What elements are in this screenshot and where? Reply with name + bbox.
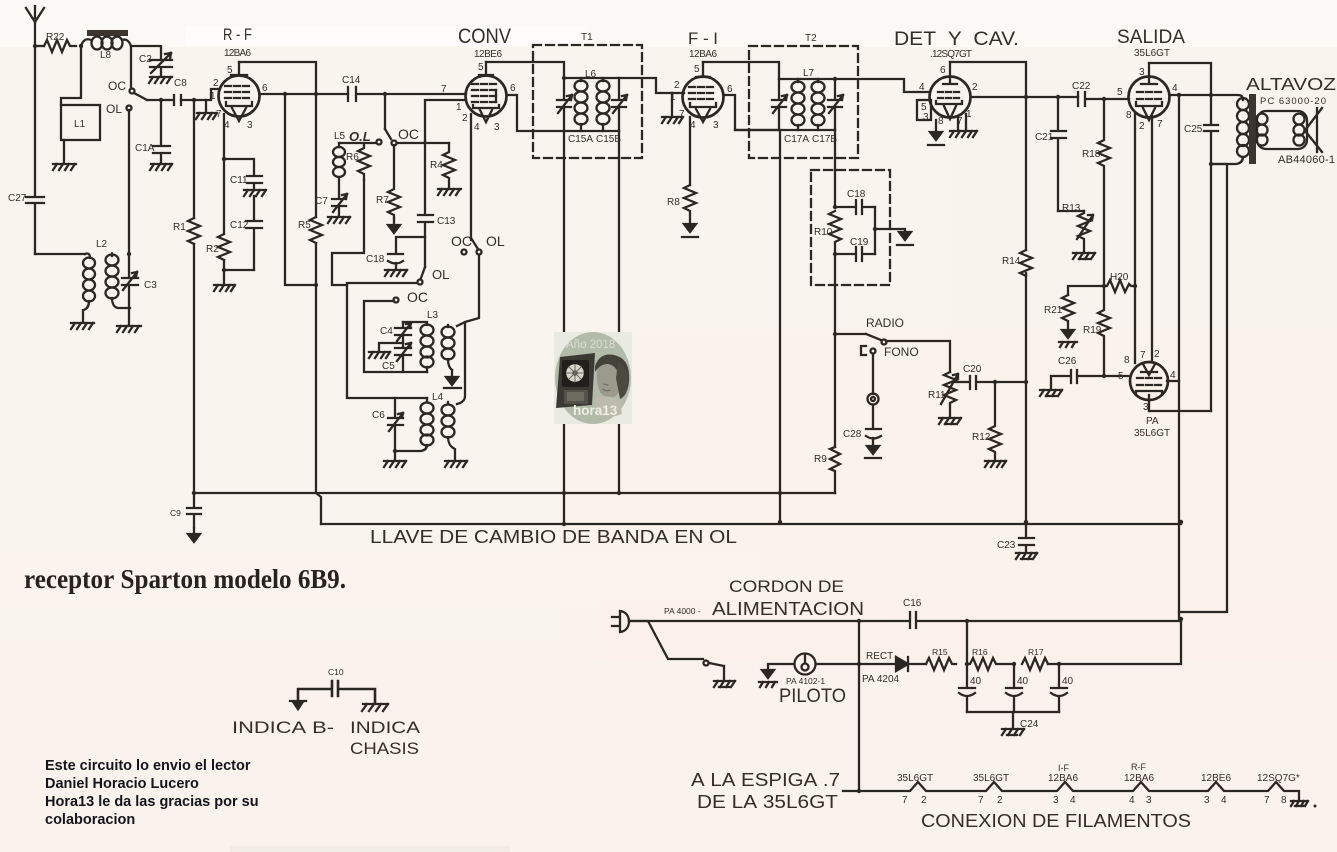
- svg-text:LLAVE DE CAMBIO DE BANDA EN OL: LLAVE DE CAMBIO DE BANDA EN OL: [370, 527, 737, 547]
- ground chassis under C26: [1040, 390, 1062, 396]
- resistor R12: [972, 382, 1001, 460]
- svg-text:R13: R13: [1062, 203, 1081, 214]
- wire C18/C19 right link: [874, 207, 876, 254]
- power plug: [612, 611, 629, 632]
- svg-text:PA: PA: [1146, 416, 1159, 427]
- svg-text:FONO: FONO: [884, 345, 919, 359]
- credit text block: [45, 758, 259, 828]
- svg-text:OC: OC: [108, 79, 126, 93]
- svg-text:C21: C21: [1035, 132, 1054, 143]
- svg-text:H20: H20: [1110, 272, 1129, 283]
- wire jack to C28: [872, 405, 874, 428]
- bus B- rail 1: [194, 492, 835, 494]
- capacitor C18 (avc): [835, 170, 875, 214]
- resistor R5: [298, 217, 322, 243]
- wire fono drop: [872, 354, 874, 394]
- svg-text:PA 4204: PA 4204: [862, 674, 900, 685]
- node R1 junction: [192, 98, 196, 102]
- inductor L3: [403, 310, 455, 372]
- svg-text:6: 6: [940, 65, 946, 76]
- wire DET pin2 out: [971, 96, 1078, 98]
- svg-text:CONV: CONV: [458, 25, 511, 48]
- capacitor C6 (variable): [372, 398, 403, 451]
- wire switch common to C8: [147, 99, 173, 101]
- svg-text:receptor Sparton modelo 6B9.: receptor Sparton modelo 6B9.: [24, 564, 346, 594]
- svg-text:4: 4: [1170, 370, 1176, 381]
- svg-text:2: 2: [674, 80, 680, 91]
- svg-text:R12: R12: [972, 432, 991, 443]
- ground chassis heater end: [1291, 801, 1317, 808]
- svg-text:R22: R22: [46, 32, 65, 43]
- resistor R8: [667, 185, 696, 224]
- ground chassis DET heater: [950, 131, 977, 137]
- svg-text:PILOTO: PILOTO: [779, 686, 846, 707]
- capacitor C7 (variable): [315, 194, 347, 216]
- capacitor C20: [963, 364, 1026, 389]
- AVC filter box: [811, 170, 890, 285]
- svg-text:2: 2: [1139, 121, 1145, 132]
- wire SALIDA cathode drop: [1134, 114, 1136, 363]
- svg-text:7: 7: [1264, 795, 1270, 806]
- svg-text:C1A: C1A: [135, 143, 155, 154]
- svg-text:C23: C23: [997, 540, 1016, 551]
- wire L8 junction down to OC contact: [130, 46, 132, 88]
- svg-text:C13: C13: [437, 216, 456, 227]
- svg-text:40: 40: [1062, 676, 1074, 687]
- svg-text:5: 5: [478, 62, 484, 73]
- svg-text:2: 2: [462, 113, 468, 124]
- node L2/C3 top: [127, 252, 131, 256]
- wire R14 line: [1025, 97, 1027, 522]
- svg-text:3: 3: [1053, 795, 1059, 806]
- svg-text:7: 7: [1140, 350, 1146, 361]
- rectifier diode PA4204: [859, 651, 926, 685]
- svg-text:4: 4: [919, 82, 925, 93]
- potentiometer R11: [928, 372, 958, 417]
- svg-text:F - I: F - I: [688, 29, 718, 48]
- wire PA plate to OT return: [1149, 410, 1211, 412]
- svg-text:3: 3: [1139, 67, 1145, 78]
- svg-text:CONEXION DE FILAMENTOS: CONEXION DE FILAMENTOS: [921, 811, 1191, 831]
- wire heater stubs: [958, 114, 966, 130]
- node L8 left junction: [79, 44, 83, 48]
- svg-text:T1: T1: [581, 32, 593, 43]
- svg-text:C8: C8: [174, 78, 187, 89]
- svg-text:C18: C18: [847, 189, 866, 200]
- svg-text:C10: C10: [328, 667, 344, 677]
- svg-text:1: 1: [456, 102, 462, 113]
- svg-text:C4: C4: [380, 326, 393, 337]
- svg-text:hora13: hora13: [573, 403, 618, 418]
- wire R2/C12 bottom: [224, 260, 254, 284]
- filament label 12SQ7G: [1257, 773, 1300, 806]
- wire C3 to ground: [128, 308, 130, 325]
- ground chassis under L1: [53, 164, 76, 170]
- wire branch down to rect output: [966, 621, 968, 664]
- capacitor C26: [1051, 356, 1130, 389]
- wire CONV grid: [425, 100, 466, 141]
- svg-text:R21: R21: [1044, 305, 1063, 316]
- wire T1 AVC drop: [618, 131, 620, 493]
- wire cord to C16: [629, 620, 859, 622]
- capacitor C11: [230, 175, 262, 190]
- legend ground chassis: [362, 704, 388, 711]
- wire T2 primary return drop: [779, 130, 781, 522]
- resistor R21: [1044, 295, 1074, 330]
- wire C21 to R13: [1058, 210, 1084, 212]
- wire SALIDA plate top: [1149, 63, 1211, 95]
- svg-text:OL: OL: [486, 233, 505, 249]
- legend ground B- arrow: [290, 701, 306, 710]
- svg-text:R5: R5: [298, 220, 311, 231]
- wire radio contact to R11: [886, 341, 950, 372]
- wire cord to switch: [629, 621, 703, 659]
- wire antenna to R22: [35, 45, 44, 47]
- node bus1 T2 tap: [778, 491, 782, 495]
- capacitor C2 (variable): [139, 53, 172, 76]
- wire L1 to ground: [63, 140, 65, 163]
- svg-text:C17B: C17B: [812, 134, 837, 145]
- svg-text:RADIO: RADIO: [866, 316, 904, 330]
- svg-text:C25: C25: [1184, 124, 1203, 135]
- svg-text:6: 6: [727, 84, 733, 95]
- wire T1 bottom link: [564, 130, 619, 132]
- wire T1 top link: [564, 77, 619, 79]
- svg-text:C3: C3: [144, 280, 157, 291]
- ground B- arrow under R8: [682, 224, 698, 237]
- node H20 left: [1102, 284, 1106, 288]
- wire T2 to DET grid: [835, 79, 929, 92]
- node R2 bottom: [222, 268, 226, 272]
- wire R5 to bus: [316, 243, 321, 524]
- resistor R10: [814, 211, 841, 254]
- svg-text:C20: C20: [963, 364, 982, 375]
- svg-text:DET Y CAV.: DET Y CAV.: [894, 29, 1019, 50]
- svg-text:2: 2: [213, 78, 219, 89]
- wire DET cathode to B-: [935, 120, 937, 132]
- switch OC/OL band (antenna): [106, 79, 147, 116]
- svg-text:L1: L1: [74, 119, 86, 130]
- svg-text:SALIDA: SALIDA: [1117, 26, 1185, 48]
- svg-text:PC 63000-20: PC 63000-20: [1260, 96, 1326, 107]
- svg-text:R - F: R - F: [223, 25, 252, 44]
- svg-text:6: 6: [262, 83, 268, 94]
- node plate/C14 cross: [314, 92, 318, 96]
- capacitor C1A: [135, 100, 170, 163]
- tube V1 RF 12BA6: [210, 62, 268, 131]
- ground chassis under C2: [149, 77, 172, 83]
- switch OL/OC (range): [394, 267, 450, 305]
- wire tap to ground: [875, 229, 905, 232]
- filament label RF 12BA6: [1124, 762, 1154, 806]
- node filter 3: [1057, 662, 1061, 666]
- svg-text:I-F: I-F: [1058, 763, 1069, 773]
- wire CONV osc grid drop: [470, 114, 472, 240]
- svg-text:C26: C26: [1058, 356, 1077, 367]
- node heater string start: [857, 789, 861, 793]
- node C16 branch: [965, 619, 969, 623]
- node OT bottom: [1209, 162, 1213, 166]
- svg-text:R-F: R-F: [1131, 762, 1146, 772]
- svg-text:C22: C22: [1072, 81, 1091, 92]
- svg-text:12SQ7G*: 12SQ7G*: [1257, 773, 1300, 784]
- wire C8 to RF grid: [181, 89, 220, 100]
- svg-text:R10: R10: [814, 227, 833, 238]
- svg-text:8: 8: [1124, 355, 1130, 366]
- ground chassis under C24: [1002, 729, 1024, 735]
- svg-text:C2: C2: [139, 54, 152, 65]
- resistor R15: [926, 647, 956, 670]
- svg-text:5: 5: [694, 64, 700, 75]
- wire switch row to R4: [339, 142, 449, 144]
- svg-text:A LA ESPIGA .7: A LA ESPIGA .7: [691, 770, 840, 790]
- svg-text:35L6GT: 35L6GT: [1134, 428, 1170, 439]
- node audio junction: [1024, 380, 1028, 384]
- ground chassis under C18: [385, 270, 407, 276]
- svg-text:C7: C7: [315, 196, 328, 207]
- svg-text:C28: C28: [843, 429, 862, 440]
- svg-text:1: 1: [210, 91, 216, 102]
- svg-text:PA 4000 -: PA 4000 -: [664, 606, 701, 616]
- svg-text:AB44060-1: AB44060-1: [1278, 154, 1335, 166]
- svg-text:12BA6: 12BA6: [1124, 773, 1154, 784]
- capacitor C23: [997, 522, 1034, 552]
- svg-text:OC: OC: [451, 233, 472, 249]
- ground chassis switch: [714, 681, 735, 687]
- wire OT bottom to B+ line: [1179, 164, 1227, 612]
- node B+ junction: [1179, 617, 1183, 621]
- ground B- arrow under C28: [865, 446, 881, 458]
- wire L1 branch: [61, 46, 81, 105]
- svg-text:C15B: C15B: [596, 134, 621, 145]
- resistor R16: [967, 647, 1014, 670]
- wire power drop: [858, 621, 860, 791]
- ground chassis under R12: [985, 461, 1006, 467]
- tube V2 CONV 12BE6: [441, 62, 516, 133]
- svg-text:3: 3: [247, 120, 253, 131]
- resistor R4: [430, 143, 455, 188]
- svg-text:1: 1: [670, 92, 676, 103]
- wire RF pin6 output: [260, 93, 348, 95]
- resistor R14: [1002, 250, 1032, 276]
- svg-text:L3: L3: [427, 310, 439, 321]
- capacitor C4 (variable): [380, 322, 411, 347]
- svg-text:.12SQ7GT: .12SQ7GT: [930, 49, 972, 60]
- wire band loop outer: [347, 283, 427, 398]
- svg-text:2: 2: [1154, 349, 1160, 360]
- ground chassis under C3: [117, 326, 141, 332]
- capacitor C24 ground: [1013, 712, 1039, 730]
- ground chassis C4/C5 tap: [369, 343, 403, 358]
- tube V4 DET 12SQ7: [917, 62, 978, 127]
- wire R1 top: [193, 100, 195, 218]
- wire grid return stub: [205, 100, 207, 112]
- wire C27 to L2: [35, 253, 85, 255]
- wire OL to L3/L4: [457, 255, 479, 404]
- svg-text:C16: C16: [903, 598, 922, 609]
- svg-text:4: 4: [1172, 83, 1178, 94]
- svg-text:C14: C14: [342, 75, 361, 86]
- capacitor 40uF C: [1051, 664, 1074, 712]
- switch RADIO/FONO: [835, 316, 919, 359]
- svg-text:3: 3: [494, 122, 500, 133]
- wire FI plate top to T2: [703, 62, 779, 79]
- ground chassis under R11: [939, 418, 961, 424]
- resistor R17: [1022, 647, 1048, 670]
- svg-text:INDICA: INDICA: [350, 718, 421, 737]
- svg-text:2: 2: [997, 795, 1003, 806]
- wire RF plate top line: [239, 62, 316, 94]
- ground B- arrow under C9: [188, 528, 200, 542]
- svg-text:C17A: C17A: [784, 134, 809, 145]
- svg-text:R1: R1: [173, 222, 186, 233]
- node pin4/OT: [1209, 93, 1213, 97]
- svg-text:8: 8: [1281, 795, 1287, 806]
- node grid PA: [1102, 374, 1106, 378]
- node bus2 T2 tap: [778, 520, 782, 524]
- node R12 tap: [993, 380, 997, 384]
- transformer T2 box: [749, 46, 858, 158]
- wire R1 to bottom bus: [193, 244, 195, 493]
- svg-text:12BE6: 12BE6: [474, 49, 502, 60]
- tube V3 FI 12BA6: [670, 62, 733, 131]
- svg-text:7: 7: [978, 795, 984, 806]
- wire T2 top link: [779, 78, 835, 80]
- wire AVC line down: [834, 254, 836, 447]
- svg-text:35L6GT: 35L6GT: [897, 773, 933, 784]
- capacitor 40uF B: [1006, 664, 1029, 712]
- node R18 top: [1102, 97, 1106, 101]
- inductor L5: [333, 131, 346, 198]
- svg-text:OL: OL: [106, 102, 122, 116]
- coil L1 box: [61, 105, 100, 140]
- heater string filaments: [859, 782, 1299, 800]
- node bus2 T1 tap: [562, 522, 566, 526]
- svg-text:12BA6: 12BA6: [689, 49, 717, 60]
- svg-text:C5: C5: [382, 361, 395, 372]
- wire R6 loop to band coils: [332, 180, 364, 285]
- svg-text:L8: L8: [100, 50, 112, 61]
- wire cathode branch to C11: [224, 159, 254, 175]
- capacitor C27: [8, 46, 44, 254]
- resistor R7: [376, 145, 400, 218]
- inductor L4: [395, 392, 455, 460]
- capacitor C19: [835, 237, 875, 261]
- wire L8 to C2 corner: [131, 46, 161, 58]
- svg-text:7: 7: [902, 795, 908, 806]
- svg-text:C12: C12: [230, 220, 249, 231]
- tube V6 PA 35L6: [1118, 349, 1176, 439]
- wire RF cathode down: [223, 114, 225, 234]
- inductor L2 secondary: [106, 253, 131, 308]
- svg-text:R6: R6: [346, 152, 359, 163]
- svg-text:7: 7: [216, 109, 222, 120]
- legend capacitor C10: [298, 667, 375, 703]
- node C6 bottom: [393, 449, 397, 453]
- svg-text:35L6GT: 35L6GT: [1134, 48, 1170, 59]
- filament label 35L6GT b: [973, 773, 1009, 806]
- wire filter cap bus: [967, 711, 1059, 713]
- node R5 bottom junction: [314, 283, 318, 287]
- svg-text:C19: C19: [850, 237, 869, 248]
- ground B- arrow lamp: [759, 670, 777, 687]
- svg-text:CORDON DE: CORDON DE: [729, 577, 844, 596]
- resistor R2: [206, 234, 230, 260]
- capacitor C13: [418, 141, 456, 267]
- ground chassis under L2 primary: [71, 323, 94, 329]
- svg-text:C9: C9: [170, 508, 181, 518]
- wire FI grid return: [671, 93, 673, 116]
- svg-text:8: 8: [938, 116, 944, 127]
- svg-text:C6: C6: [372, 410, 385, 421]
- capacitor C15A (variable): [557, 78, 593, 145]
- bus B- rail 2: [321, 523, 1181, 525]
- wire T2 bottom link: [735, 129, 835, 131]
- svg-text:3: 3: [1146, 795, 1152, 806]
- antenna: [26, 6, 44, 46]
- node screen tap: [1177, 93, 1181, 97]
- svg-text:R14: R14: [1002, 256, 1021, 267]
- svg-text:Año 2018: Año 2018: [566, 339, 615, 351]
- capacitor C12: [230, 220, 262, 270]
- capacitor C5 (variable): [382, 343, 411, 372]
- svg-text:8: 8: [1126, 110, 1132, 121]
- pilot lamp: [768, 654, 859, 708]
- node antenna junction: [33, 44, 37, 48]
- node lamp/rect junction: [857, 662, 861, 666]
- svg-text:INDICA B-: INDICA B-: [232, 718, 334, 737]
- node ground tap: [873, 227, 877, 231]
- svg-text:R17: R17: [1028, 647, 1044, 657]
- wire FI pin6 to T2 bottom: [724, 95, 779, 130]
- ground chassis below C11: [244, 190, 266, 220]
- svg-text:Este circuito lo envio el lect: Este circuito lo envio el lector: [45, 758, 251, 774]
- ground B- arrow under R21: [1059, 330, 1077, 347]
- node filter 1: [965, 662, 969, 666]
- node band switch feed: [383, 92, 387, 96]
- svg-text:R11: R11: [928, 390, 946, 401]
- node pin6 branch: [283, 92, 287, 96]
- ground B- arrow under L3: [444, 370, 461, 388]
- svg-text:C15A: C15A: [568, 134, 593, 145]
- ground chassis under C7: [328, 217, 350, 223]
- filament label IF 12BA6: [1048, 763, 1078, 806]
- capacitor C25: [1184, 95, 1218, 411]
- svg-text:Hora13 le da las gracias por s: Hora13 le da las gracias por su: [45, 794, 259, 810]
- filament label 12BE6: [1201, 773, 1231, 806]
- svg-text:4: 4: [1129, 795, 1135, 806]
- svg-text:PA 4102-1: PA 4102-1: [786, 676, 825, 686]
- switch OC/OL (osc select): [451, 233, 505, 255]
- svg-text:7: 7: [441, 84, 447, 95]
- ground B- arrow avc: [897, 232, 913, 245]
- node bus1 avc tap: [617, 491, 621, 495]
- capacitor C3 (variable): [122, 254, 157, 308]
- wire screen drop to B+: [1178, 95, 1180, 619]
- capacitor 40uF A: [959, 664, 982, 712]
- capacitor C17B (variable): [812, 79, 843, 145]
- svg-text:R2: R2: [206, 244, 219, 255]
- svg-text:L2: L2: [96, 239, 108, 250]
- resistor R1: [173, 218, 200, 244]
- wire T1 B+ drop: [563, 131, 565, 524]
- svg-text:R7: R7: [376, 195, 389, 206]
- watermark stamp hora13: [554, 332, 632, 424]
- node T1 primary top: [562, 76, 566, 80]
- svg-text:R8: R8: [667, 197, 680, 208]
- resistor H20: [1104, 272, 1135, 292]
- tube V5 SALIDA 35L6: [1117, 63, 1178, 132]
